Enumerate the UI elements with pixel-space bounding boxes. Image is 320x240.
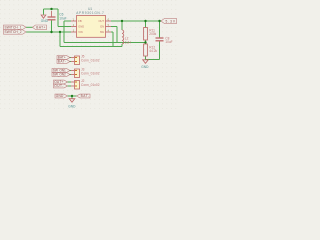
svg-text:GND: GND <box>56 94 64 98</box>
svg-text:FB: FB <box>78 19 82 23</box>
svg-text:GND: GND <box>141 65 149 69</box>
svg-text:5.3V: 5.3V <box>166 19 176 23</box>
svg-text:GND: GND <box>41 19 49 23</box>
svg-text:Conn_01x02: Conn_01x02 <box>81 83 100 87</box>
svg-text:GND: GND <box>68 105 76 109</box>
svg-text:APR9301GN-7: APR9301GN-7 <box>76 11 104 15</box>
svg-text:OUT-: OUT- <box>54 84 63 88</box>
svg-text:OUT: OUT <box>99 19 105 23</box>
svg-text:SWITCH_2: SWITCH_2 <box>5 30 22 34</box>
svg-text:10uF: 10uF <box>165 40 172 44</box>
svg-text:SW: SW <box>100 30 105 34</box>
svg-text:Conn_01x02: Conn_01x02 <box>81 72 100 76</box>
svg-text:GND: GND <box>78 25 84 29</box>
svg-text:44.2k: 44.2k <box>149 49 157 53</box>
svg-text:SW_ON2: SW_ON2 <box>53 73 66 77</box>
svg-text:EN: EN <box>100 25 104 29</box>
svg-text:BAT-: BAT- <box>58 60 66 64</box>
svg-text:SWITCH_1: SWITCH_1 <box>5 26 22 30</box>
svg-text:Conn_01x02: Conn_01x02 <box>81 59 100 63</box>
svg-text:1uH: 1uH <box>125 40 132 44</box>
svg-text:200k: 200k <box>149 32 156 36</box>
svg-text:10uF: 10uF <box>59 16 66 20</box>
svg-text:BAT-: BAT- <box>81 94 90 98</box>
svg-text:VIN: VIN <box>78 30 82 34</box>
svg-text:BAT+: BAT+ <box>36 26 45 30</box>
